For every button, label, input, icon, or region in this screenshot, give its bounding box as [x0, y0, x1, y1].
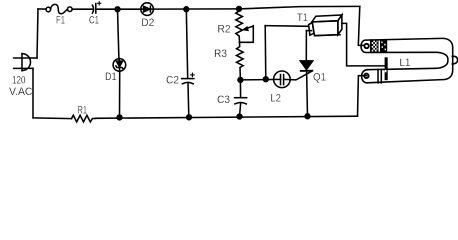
- lamp L1 bottom lead knob: [364, 74, 368, 78]
- transformer T1: [297, 12, 342, 36]
- svg-text:D1: D1: [105, 71, 117, 83]
- svg-text:C1: C1: [89, 15, 99, 27]
- wire T1 primary lead: [265, 25, 308, 28]
- lamp L1 top filament checker: [371, 40, 378, 52]
- svg-text:R3: R3: [214, 48, 227, 60]
- lamp L1 tip: [452, 56, 457, 64]
- capacitor C1: [89, 2, 101, 27]
- svg-text:T1: T1: [297, 12, 308, 24]
- node bottom Q1 junction: [305, 114, 310, 119]
- capacitor C3: [217, 80, 247, 117]
- wire T1 secondary lead to lamp electrode: [342, 23, 385, 66]
- svg-text:L2: L2: [271, 92, 282, 104]
- wire bottom rail left: [33, 117, 72, 120]
- svg-text:R1: R1: [78, 105, 88, 117]
- diode D2: [141, 3, 155, 29]
- fuse F1: [46, 4, 72, 26]
- svg-text:D2: D2: [141, 17, 154, 29]
- neon lamp L2: [271, 71, 291, 104]
- lamp L1 bottom cap line: [377, 70, 379, 83]
- wire T1 lower primary lead: [306, 30, 311, 32]
- zener diode D1: [105, 9, 126, 117]
- node A junction: [115, 7, 120, 12]
- node R2 top junction: [237, 6, 242, 11]
- wire L2 to Q1 gate: [284, 71, 312, 80]
- wire plug bottom to bottom rail: [32, 68, 34, 117]
- node bottom C3 junction: [237, 114, 242, 119]
- wire lamp bottom riser: [358, 76, 367, 117]
- lamp L1 top lead knob: [364, 44, 368, 48]
- svg-text:L1: L1: [400, 57, 411, 69]
- node B junction: [184, 7, 189, 12]
- resistor R3: [214, 42, 243, 80]
- svg-text:Q1: Q1: [313, 72, 326, 84]
- svg-text:C3: C3: [217, 94, 230, 106]
- lamp L1 bottom electrode bar: [385, 57, 388, 80]
- svg-text:C2: C2: [166, 74, 179, 86]
- potentiometer R2: [218, 11, 254, 42]
- svg-text:F1: F1: [56, 15, 65, 27]
- AC plug 120 V.AC source: [9, 54, 37, 98]
- svg-text:R2: R2: [218, 24, 231, 36]
- capacitor C2: [166, 9, 194, 117]
- thyristor Q1: [300, 31, 326, 117]
- lamp L1 top cap line: [370, 40, 372, 52]
- wire D2 to node B to R2 top: [153, 8, 239, 10]
- fluorescent lamp L1: [361, 38, 458, 83]
- node R3-C3 junction: [238, 78, 243, 83]
- wire top rail right segment: [239, 6, 360, 8]
- node T1 primary junction: [263, 77, 268, 82]
- wire node to L2: [240, 78, 280, 81]
- svg-text:120: 120: [12, 75, 26, 87]
- wire T1 primary drop: [264, 26, 267, 80]
- wire F1 to C1: [72, 8, 92, 10]
- wire bottom rail mid: [95, 116, 358, 118]
- wire lamp top riser: [358, 6, 363, 45]
- resistor R1: [72, 105, 96, 122]
- wire plug top to rail: [37, 9, 38, 58]
- node bottom D1 junction: [117, 115, 122, 120]
- lamp L1 top electrode block: [380, 40, 387, 53]
- node bottom C2 junction: [187, 115, 192, 120]
- wire top rail left segment: [38, 8, 46, 10]
- wire C1 to node A: [96, 8, 140, 10]
- svg-text:V.AC: V.AC: [9, 86, 33, 98]
